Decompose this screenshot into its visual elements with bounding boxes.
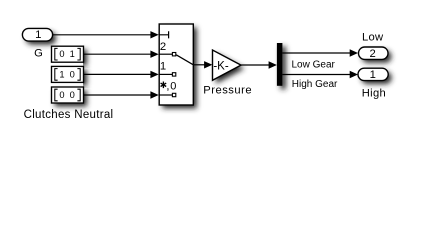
svg-text:High Gear: High Gear [292,79,338,90]
svg-text:Clutches Neutral: Clutches Neutral [24,109,114,121]
svg-text:2: 2 [160,41,166,53]
svg-text:1: 1 [70,49,75,59]
multiport switch U1 [159,24,193,105]
label asterisk of *,0 [161,82,167,89]
wire gain to demux [241,61,277,68]
wire C3 to switch default input [84,91,159,98]
wire G to switch control [53,31,159,38]
svg-text:1: 1 [160,61,166,73]
input stub 2 [159,53,172,55]
input stub default [159,94,172,96]
svg-text:1: 1 [35,29,41,41]
svg-text:0: 0 [70,69,75,79]
svg-text:Low Gear: Low Gear [292,59,336,70]
svg-text:1: 1 [370,69,376,81]
demux bar [277,43,283,86]
svg-text:Low: Low [362,32,384,44]
constant C3 [0 0] [52,87,84,103]
port dot 2 [172,53,175,56]
shadow of outport High [361,72,391,84]
svg-text:High: High [362,88,386,100]
outport Low oval 2 [359,47,389,60]
shadow of constant C2 (right side only) [55,70,87,86]
svg-text:,: , [166,81,169,93]
wire demux to outport Low [282,49,358,56]
control port marker [159,31,168,38]
svg-text:-K-: -K- [213,60,229,72]
constant C2 [1 0] [52,66,84,82]
svg-text:0: 0 [59,90,64,100]
shadow of constant C3 [55,90,87,106]
wire C1 to switch input 2 [84,51,159,58]
shadow of multiport switch [163,27,197,108]
gain Pressure [213,50,242,80]
port dot default [172,93,175,96]
svg-text:0: 0 [59,49,64,59]
shadow of inport G oval [26,32,56,45]
shadow of demux [280,46,286,89]
switch arm [176,55,193,65]
shadow of constant C1 (right side only) [55,50,87,66]
svg-text:1: 1 [59,69,64,79]
shadow of outport Low [362,50,392,62]
svg-text:G: G [34,47,43,59]
svg-text:0: 0 [170,81,176,93]
svg-text:0: 0 [70,90,75,100]
inport G oval 1 [22,28,52,41]
port dot 1 [172,73,175,76]
wire C2 to switch input 1 [84,71,159,78]
input stub 1 [159,73,172,75]
wire switch to gain [193,61,212,68]
outport High oval 1 [358,68,388,81]
constant C1 [0 1] [52,46,84,62]
wire demux to outport High [282,71,358,78]
svg-text:2: 2 [369,48,375,60]
shadow of gain [216,53,245,83]
svg-text:Pressure: Pressure [203,85,252,97]
